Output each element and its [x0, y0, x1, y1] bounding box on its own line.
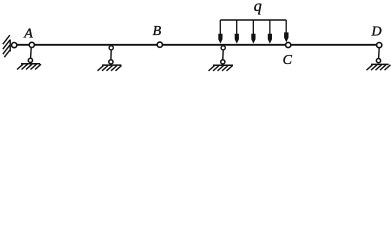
support under A: ground line: [21, 63, 40, 65]
support at x=112: ground line: [102, 64, 121, 66]
support at x=223: ground line: [213, 64, 233, 66]
support under D: ground hatching: [367, 65, 391, 70]
load arrow 3: [251, 20, 255, 44]
beam (main horizontal member A to D): [11, 44, 377, 46]
wall (left anchorage hatching): [3, 35, 10, 57]
support under A: ground hatching: [17, 64, 41, 69]
support at x=223: ground hatching: [209, 66, 233, 71]
wall pin circle: [12, 43, 17, 48]
load arrow 2: [235, 20, 239, 44]
support under A: roller circle: [28, 58, 32, 62]
svg-text:B: B: [153, 24, 162, 39]
support at x=112: roller circle: [109, 60, 113, 64]
support under D: ground line: [371, 63, 389, 65]
distributed load q: top line: [220, 19, 286, 21]
support at x=112: ground hatching: [98, 66, 122, 71]
support at x=223: stem: [222, 50, 224, 60]
support at x=223: roller circle: [221, 60, 225, 64]
support under D: stem: [378, 48, 381, 58]
load arrow 5: [284, 20, 288, 42]
svg-text:C: C: [283, 53, 293, 68]
support at x=112: stem: [110, 50, 112, 60]
support at x=112: attachment circle: [109, 46, 113, 50]
hinge A circle: [29, 42, 34, 47]
svg-text:A: A: [23, 26, 33, 41]
load arrow 4: [268, 20, 272, 44]
svg-text:q: q: [254, 0, 262, 15]
hinge C circle: [286, 42, 291, 47]
hinge B circle: [157, 42, 162, 47]
support at x=223: attachment circle: [221, 46, 225, 50]
support under D: roller circle: [376, 59, 380, 63]
svg-text:D: D: [371, 25, 382, 40]
load arrow 1: [218, 20, 222, 44]
hinge D circle: [377, 43, 382, 48]
support under A: stem: [30, 48, 33, 59]
